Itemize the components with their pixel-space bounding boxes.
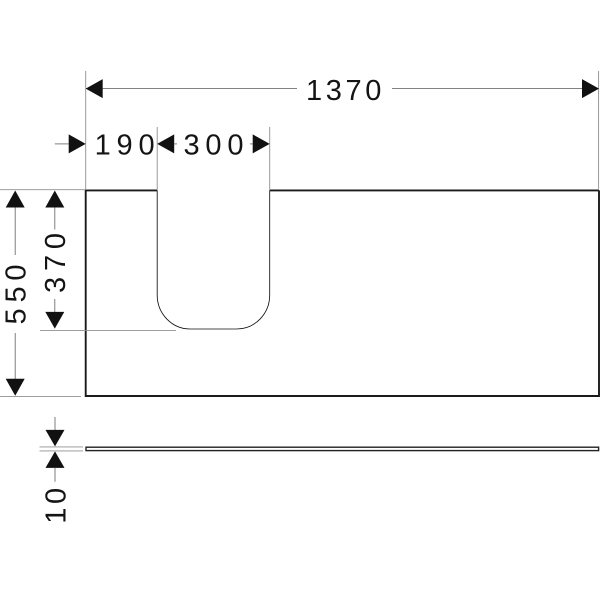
arrowhead 1370 right — [582, 79, 599, 98]
arrowhead 300 left — [157, 134, 174, 153]
extension line top edge horizontal — [0, 189, 85, 191]
dimension line 1370 right segment — [392, 88, 599, 90]
arrowhead 370 top — [45, 191, 64, 208]
dimension line 550 lower segment — [14, 333, 16, 379]
svg-text:10: 10 — [41, 484, 73, 523]
svg-text:300: 300 — [184, 130, 250, 162]
arrowhead 1370 left — [86, 79, 103, 98]
dimension 300 left stub — [174, 143, 177, 145]
extension line cutout right vertical — [269, 127, 271, 190]
arrowhead 190 outside pointing right — [69, 134, 86, 153]
arrowhead 550 bottom — [6, 379, 25, 396]
side view plate — [86, 447, 599, 450]
arrowhead 300 right — [253, 134, 270, 153]
dimension 300 right stub — [250, 143, 253, 145]
basin cutout U-shape — [157, 190, 270, 329]
dimension 10 upper stub — [54, 417, 56, 430]
extension line bottom edge horizontal — [0, 396, 81, 398]
arrowhead 370 bottom — [45, 312, 64, 329]
extension line right edge vertical — [598, 71, 600, 190]
svg-text:370: 370 — [40, 227, 72, 293]
arrowhead 10 down — [46, 430, 65, 447]
svg-text:1370: 1370 — [306, 75, 385, 107]
top view outline: console plate rectangle — [86, 190, 599, 396]
extension line plate bottom — [40, 450, 84, 452]
extension line left edge vertical — [85, 71, 87, 190]
dimension 190 tail line — [55, 143, 69, 145]
dimension line 550 upper segment — [14, 208, 16, 256]
dimension line 370 upper segment — [54, 208, 56, 230]
dimension 10 lower stub — [54, 468, 56, 482]
svg-text:550: 550 — [1, 259, 33, 325]
svg-text:190: 190 — [95, 130, 161, 162]
extension line plate top — [40, 446, 84, 448]
extension line cutout left vertical — [156, 127, 158, 190]
arrowhead 10 up — [46, 451, 65, 468]
extension line cutout bottom horizontal — [40, 329, 176, 331]
arrowhead 550 top — [6, 191, 25, 208]
dimension line 370 lower segment — [54, 299, 56, 312]
dimension line 1370 left segment — [86, 88, 297, 90]
